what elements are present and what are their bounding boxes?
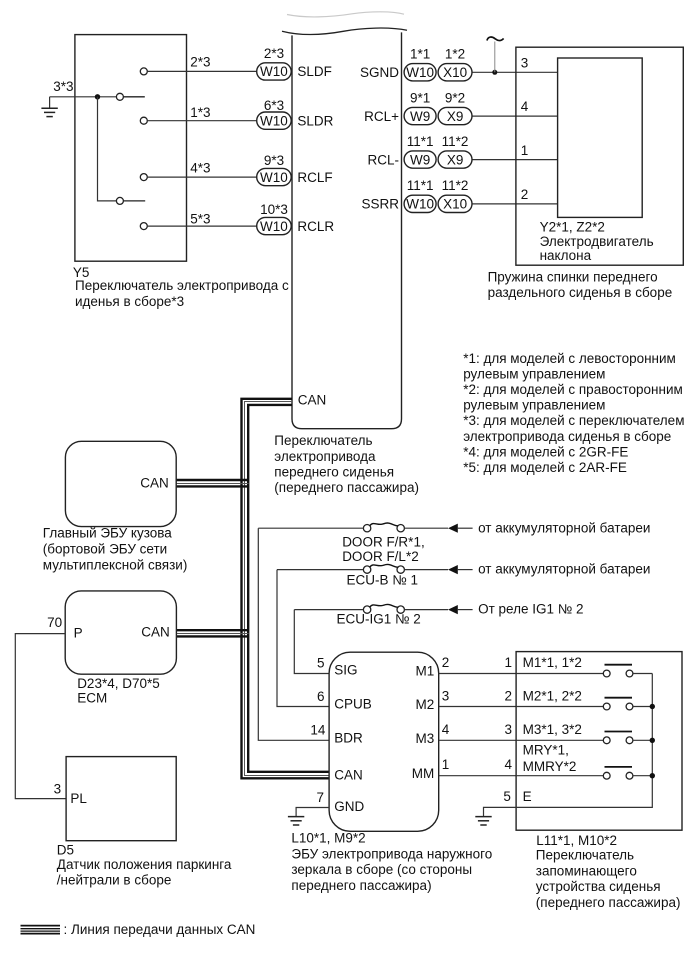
switch S3 (M3): [516, 739, 603, 741]
svg-text:переднего сиденья: переднего сиденья: [274, 465, 394, 480]
svg-text:L10*1, M9*2: L10*1, M9*2: [291, 831, 365, 846]
wire CAN bus main path stripe C (inner): [248, 405, 329, 772]
arrow from IG1 relay: [448, 605, 458, 614]
svg-text:иденья в сборе*3: иденья в сборе*3: [75, 294, 184, 309]
svg-text:Электродвигатель: Электродвигатель: [540, 234, 654, 249]
connector W10 pin 10*3: [257, 217, 292, 234]
wire break stub (continues) with tilde: [494, 42, 496, 73]
wire J1 down to pole 2: [98, 97, 117, 201]
svg-text:CAN: CAN: [334, 768, 363, 783]
node junction J1: [95, 94, 100, 99]
svg-text:раздельного сиденья в сборе: раздельного сиденья в сборе: [488, 285, 673, 300]
svg-text:2*3: 2*3: [264, 46, 284, 61]
svg-text:запоминающего: запоминающего: [536, 863, 637, 878]
svg-text:4: 4: [504, 757, 512, 772]
svg-text:SLDR: SLDR: [297, 114, 333, 129]
svg-text:*4: для моделей с 2GR-FE: *4: для моделей с 2GR-FE: [463, 444, 628, 459]
svg-text:*5: для моделей с 2AR-FE: *5: для моделей с 2AR-FE: [463, 460, 627, 475]
svg-text:ECU-IG1 № 2: ECU-IG1 № 2: [337, 611, 421, 626]
svg-text:14: 14: [310, 723, 326, 738]
svg-text:W10: W10: [260, 170, 288, 185]
svg-text:От реле IG1 № 2: От реле IG1 № 2: [478, 602, 583, 617]
svg-text:M2*1, 2*2: M2*1, 2*2: [523, 688, 582, 703]
switch pole P1 (Y5 upper): [116, 93, 123, 100]
component ECM box: [65, 591, 176, 674]
svg-text:CPUB: CPUB: [334, 697, 372, 712]
connector X9 pin 11*2: [438, 151, 472, 168]
U1 faint upper remnant: [287, 12, 404, 17]
svg-text:3: 3: [521, 55, 529, 70]
svg-text:Переключатель электропривода с: Переключатель электропривода с: [75, 278, 289, 293]
wire ground to Y5 common: [50, 96, 117, 98]
switch S1 (M1): [516, 673, 603, 675]
svg-text:W10: W10: [406, 197, 434, 212]
connector W9 pin 9*1: [404, 107, 436, 124]
component U1 front passenger seat power switch (body): [292, 32, 402, 428]
svg-text:11*2: 11*2: [442, 178, 469, 193]
svg-text:MRY*1,: MRY*1,: [523, 743, 569, 758]
svg-text:M1: M1: [416, 664, 435, 679]
wire ECM P to D5 PL: [15, 634, 66, 799]
connector W10 pin 1*1: [404, 64, 436, 81]
svg-text:W10: W10: [406, 65, 434, 80]
wire M2: [439, 706, 516, 708]
component box seatback spring assy: [516, 47, 683, 265]
connector W10 pin 9*3: [257, 168, 292, 185]
svg-text:ECM: ECM: [77, 691, 107, 706]
switch S2 (M2): [516, 706, 603, 708]
svg-text:11*1: 11*1: [407, 134, 434, 149]
wire ECU-B fuse to CPUB: [277, 570, 329, 707]
svg-text:DOOR F/R*1,: DOOR F/R*1,: [342, 535, 425, 550]
svg-text:W9: W9: [410, 109, 430, 124]
svg-text:10*3: 10*3: [260, 202, 288, 217]
svg-text:Пружина спинки переднего: Пружина спинки переднего: [488, 269, 658, 284]
svg-text:MM: MM: [412, 766, 435, 781]
svg-text:3*3: 3*3: [53, 79, 73, 94]
svg-text:SIG: SIG: [334, 663, 357, 678]
arrow from battery 1: [448, 524, 458, 533]
svg-text:W9: W9: [410, 152, 430, 167]
svg-text:*1: для моделей с левосторонни: *1: для моделей с левосторонним: [463, 351, 676, 366]
wire RCL+ row: [472, 115, 558, 117]
svg-text:электропривода сиденья в сборе: электропривода сиденья в сборе: [463, 429, 671, 444]
svg-text:1*2: 1*2: [445, 47, 465, 62]
connector X10 pin 11*2: [438, 195, 472, 212]
node junction on rail at MM: [650, 773, 655, 778]
svg-text:SLDF: SLDF: [297, 64, 332, 79]
svg-text:Переключатель: Переключатель: [274, 433, 372, 448]
connector W10 pin 6*3: [257, 112, 292, 129]
svg-text:ECU-B № 1: ECU-B № 1: [347, 572, 419, 587]
connector W10 pin 11*1: [404, 195, 436, 212]
wire M3: [439, 739, 516, 741]
svg-text:D23*4, D70*5: D23*4, D70*5: [77, 676, 160, 691]
svg-text:X10: X10: [443, 65, 467, 80]
svg-text:*3: для моделей с переключател: *3: для моделей с переключателем: [463, 413, 684, 428]
svg-text:RCL+: RCL+: [364, 109, 399, 124]
wire RCL- row: [472, 159, 558, 161]
connector X10 pin 1*2: [438, 64, 472, 81]
contact + wire 2*3 (SLDF): [140, 68, 147, 75]
component box seat memory switch: [516, 652, 682, 831]
svg-text:GND: GND: [334, 799, 364, 814]
svg-text:зеркала в сборе (со стороны: зеркала в сборе (со стороны: [291, 862, 472, 877]
node junction on rail at M2: [650, 704, 655, 709]
wire CAN bus branch from main body ECU: [176, 479, 248, 481]
wire ECU-IG1 fuse to SIG: [294, 610, 329, 674]
svg-text:D5: D5: [57, 843, 74, 858]
svg-text:SGND: SGND: [360, 65, 399, 80]
wire MM: [439, 775, 516, 777]
svg-text:CAN: CAN: [298, 393, 327, 408]
svg-text:1: 1: [504, 655, 512, 670]
node junction J2 on SGND: [492, 70, 497, 75]
connector X9 pin 9*2: [438, 107, 472, 124]
arrow from battery 2: [448, 565, 458, 574]
svg-text:RCLR: RCLR: [297, 219, 334, 234]
ground G2 (mirror ECU): [288, 816, 304, 818]
legend CAN line sample: [21, 925, 61, 927]
ground G1 (pin 3*3 of Y5): [49, 97, 51, 108]
svg-text:9*3: 9*3: [264, 153, 284, 168]
switch pole P2 (Y5 lower): [116, 197, 123, 204]
wire GND to ground: [296, 808, 329, 817]
component U2 outer mirror ECU box: [329, 652, 439, 831]
svg-text:1: 1: [442, 757, 450, 772]
fuse ECU-B No1: [363, 566, 370, 573]
svg-text:: Линия передачи данных CAN: : Линия передачи данных CAN: [64, 922, 256, 937]
svg-text:W10: W10: [260, 113, 288, 128]
svg-text:электропривода: электропривода: [274, 449, 376, 464]
svg-text:RCLF: RCLF: [297, 170, 332, 185]
wire CAN bus branch from ECM: [176, 629, 248, 631]
svg-text:от аккумуляторной батареи: от аккумуляторной батареи: [478, 520, 650, 535]
svg-text:L11*1, M10*2: L11*1, M10*2: [536, 833, 617, 848]
svg-text:Y2*1, Z2*2: Y2*1, Z2*2: [540, 220, 605, 235]
switch S4 (MM): [516, 775, 603, 777]
svg-text:2: 2: [521, 187, 529, 202]
svg-text:2: 2: [442, 655, 450, 670]
U1 torn-top wavy edge: [282, 28, 407, 34]
svg-text:DOOR F/L*2: DOOR F/L*2: [342, 549, 419, 564]
svg-text:рулевым управлением: рулевым управлением: [463, 366, 605, 381]
svg-text:CAN: CAN: [141, 625, 170, 640]
svg-text:Переключатель: Переключатель: [536, 848, 634, 863]
wire switch common rail: [484, 674, 653, 817]
svg-text:3: 3: [504, 722, 512, 737]
svg-text:M3*1, 3*2: M3*1, 3*2: [523, 722, 582, 737]
svg-text:5*3: 5*3: [190, 211, 210, 226]
svg-text:устройства сиденья: устройства сиденья: [536, 879, 661, 894]
svg-text:5: 5: [317, 655, 325, 670]
svg-text:Датчик положения паркинга: Датчик положения паркинга: [57, 857, 232, 872]
svg-text:5: 5: [503, 789, 511, 804]
svg-text:11*1: 11*1: [407, 178, 434, 193]
svg-text:рулевым управлением: рулевым управлением: [463, 398, 605, 413]
component box Y5 seat power switch: [75, 35, 187, 262]
svg-text:MMRY*2: MMRY*2: [523, 759, 577, 774]
svg-text:M3: M3: [416, 731, 435, 746]
svg-text:2: 2: [504, 688, 512, 703]
svg-text:E: E: [523, 789, 532, 804]
wire M1: [439, 673, 516, 675]
svg-text:Главный ЭБУ кузова: Главный ЭБУ кузова: [43, 526, 173, 541]
svg-text:BDR: BDR: [334, 731, 363, 746]
svg-text:1: 1: [521, 143, 529, 158]
node junction on rail at M3: [650, 738, 655, 743]
wire CAN bus main path stripe B (middle): [245, 402, 330, 776]
wire SGND row: [472, 71, 558, 73]
svg-text:9*1: 9*1: [410, 90, 430, 105]
svg-text:RCL-: RCL-: [367, 152, 399, 167]
wire CAN bus main path stripe A (outer): [242, 399, 330, 779]
ground G3 (memory switch E): [475, 816, 491, 818]
connector W9 pin 11*1: [404, 151, 436, 168]
svg-text:M1*1, 1*2: M1*1, 1*2: [523, 655, 582, 670]
svg-text:4*3: 4*3: [190, 161, 210, 176]
connector W10 pin 2*3: [257, 63, 292, 80]
svg-text:(переднего пассажира): (переднего пассажира): [536, 895, 681, 910]
svg-text:1*3: 1*3: [190, 105, 210, 120]
svg-text:W10: W10: [260, 219, 288, 234]
svg-text:X9: X9: [447, 152, 464, 167]
svg-text:4: 4: [442, 722, 450, 737]
svg-text:от аккумуляторной батареи: от аккумуляторной батареи: [478, 562, 650, 577]
svg-text:/нейтрали в сборе: /нейтрали в сборе: [57, 873, 172, 888]
component main body ECU box: [65, 441, 176, 526]
svg-text:M2: M2: [416, 697, 435, 712]
svg-text:11*2: 11*2: [442, 134, 469, 149]
svg-text:70: 70: [47, 615, 62, 630]
svg-text:7: 7: [317, 790, 325, 805]
component box D5 sensor: [66, 757, 176, 841]
svg-text:P: P: [74, 626, 83, 641]
svg-text:(переднего пассажира): (переднего пассажира): [274, 480, 419, 495]
svg-text:SSRR: SSRR: [361, 197, 399, 212]
svg-text:наклона: наклона: [540, 248, 592, 263]
contact + wire 5*3 (RCLR): [140, 223, 147, 230]
svg-text:(бортовой ЭБУ сети: (бортовой ЭБУ сети: [43, 542, 167, 557]
svg-text:2*3: 2*3: [190, 54, 210, 69]
svg-text:3: 3: [54, 782, 62, 797]
svg-text:6: 6: [317, 689, 325, 704]
svg-text:W10: W10: [260, 64, 288, 79]
fuse DOOR F/R,F/L: [363, 525, 370, 532]
svg-text:X9: X9: [447, 109, 464, 124]
contact + wire 1*3 (SLDR): [140, 117, 147, 124]
svg-text:*2: для моделей с правосторонн: *2: для моделей с правосторонним: [463, 382, 683, 397]
svg-text:9*2: 9*2: [445, 90, 465, 105]
svg-text:PL: PL: [70, 791, 87, 806]
wire SSRR row: [472, 203, 558, 205]
svg-text:1*1: 1*1: [410, 47, 430, 62]
svg-text:переднего пассажира): переднего пассажира): [291, 878, 431, 893]
svg-text:CAN: CAN: [140, 475, 169, 490]
svg-text:мультиплексной связи): мультиплексной связи): [43, 557, 188, 572]
wire DOOR fuse to BDR: [258, 528, 329, 740]
fuse ECU-IG1 No2: [363, 606, 370, 613]
component box Y2 tilt motor: [558, 58, 643, 217]
svg-text:X10: X10: [443, 197, 467, 212]
svg-text:4: 4: [521, 99, 529, 114]
svg-text:ЭБУ электропривода наружного: ЭБУ электропривода наружного: [291, 846, 492, 861]
svg-text:3: 3: [442, 688, 450, 703]
svg-text:6*3: 6*3: [264, 98, 284, 113]
contact + wire 4*3 (RCLF): [140, 174, 147, 181]
